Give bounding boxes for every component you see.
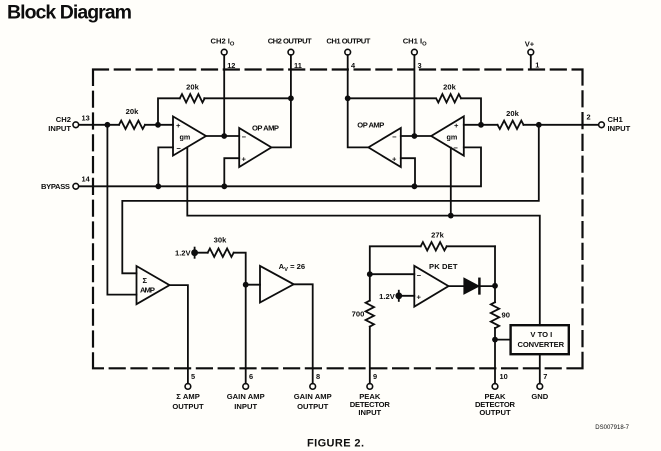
svg-text:90: 90 [502,311,510,320]
pin 8 terminal circle [310,384,316,390]
svg-text:INPUT: INPUT [48,124,71,133]
svg-text:Σ AMP: Σ AMP [176,392,200,401]
wire CH1 feedback riser [348,98,481,125]
wire gm1 control drop [450,148,452,216]
svg-text:13: 13 [82,113,90,122]
svg-text:OP AMP: OP AMP [357,120,384,129]
wire node to V-to-I box [495,339,511,341]
svg-text:1.2V: 1.2V [175,249,192,258]
svg-text:−: − [454,143,459,152]
svg-text:+: + [454,121,459,130]
wire pin 3 stub [413,55,415,136]
node junction dots [105,122,111,128]
svg-text:5: 5 [191,372,195,381]
svg-text:10: 10 [500,372,508,381]
svg-text:−: − [177,144,182,153]
svg-text:GND: GND [531,392,548,401]
svg-text:2: 2 [587,113,591,122]
wire V+ stub to outline [530,55,532,69]
svg-text:20k: 20k [506,109,519,118]
svg-text:gm: gm [447,132,458,141]
svg-text:27k: 27k [431,231,444,240]
resistor R-fb2 20k [180,94,205,102]
svg-text:OUTPUT: OUTPUT [172,402,204,411]
diode D1 cathode bar [478,279,481,294]
svg-text:CH1 OUTPUT: CH1 OUTPUT [326,36,370,45]
svg-text:+: + [417,292,422,301]
svg-text:gm: gm [180,132,191,141]
pin 10 terminal circle [492,384,498,390]
svg-text:−: − [242,133,247,142]
pin 9 terminal circle [367,384,373,390]
resistor R30k [208,249,234,257]
svg-text:CH1: CH1 [608,115,624,124]
wire pin 12 stub [223,55,225,136]
svg-text:700: 700 [352,310,365,319]
node pk det 1.2V terminal dot [398,291,400,301]
resistor R-fb1 20k [436,94,461,102]
svg-text:PK DET: PK DET [429,262,458,271]
svg-text:CH2 IO: CH2 IO [211,36,235,47]
wire A2 output to pin 11 [271,55,291,147]
wire 1.2V to pk det plus [399,295,415,297]
wire gm2 minus to bypass [158,147,173,186]
svg-text:GAIN AMP: GAIN AMP [294,392,332,401]
svg-text:1: 1 [535,61,539,70]
wire gain amp input [246,284,260,286]
svg-text:AV = 26: AV = 26 [279,262,305,273]
wire pk det minus input [370,273,415,275]
wire CH2 input line [79,124,173,126]
pin 14 BYPASS terminal circle [73,183,79,189]
diode D1 [464,279,478,294]
wire bypass rail [79,147,481,186]
svg-text:OUTPUT: OUTPUT [479,408,511,417]
svg-text:12: 12 [227,61,235,70]
svg-text:3: 3 [418,61,422,70]
wire 90 to output node [494,286,496,340]
svg-text:−: − [417,271,422,280]
resistor R-in2 20k [119,121,145,129]
svg-text:BYPASS: BYPASS [41,182,70,191]
svg-text:CONVERTER: CONVERTER [518,340,565,349]
op-amp PKDET peak detector [414,266,448,307]
svg-text:FIGURE 2.: FIGURE 2. [307,438,364,450]
op-amp SUM sigma amp [137,266,170,304]
wire pin 9 riser to 27k [370,246,495,383]
V to I converter box [511,325,569,354]
pin 11 CH2 OUTPUT terminal circle [288,49,294,55]
wire gm1 output to node [401,135,431,137]
wire 27k right leg [494,246,496,285]
wire pk det output to diode [449,285,464,287]
svg-text:DS007918-7: DS007918-7 [595,425,629,431]
svg-text:AMP: AMP [140,286,155,295]
wire A1 output to pin 4 [348,55,369,147]
resistor R-in1 20k [498,121,524,129]
wire CH2 input to sum amp [107,125,136,295]
svg-text:20k: 20k [126,107,139,116]
pin 4 CH1 OUTPUT terminal circle [345,49,351,55]
svg-text:1.2V: 1.2V [379,292,396,301]
resistor R90 [491,302,499,328]
svg-text:7: 7 [543,372,547,381]
svg-text:OP AMP: OP AMP [252,123,279,132]
op-amp gm1 CH1 transconductance amp [431,116,464,155]
op-amp A2 CH2 op amp [239,128,271,167]
wire sum amp output to pin 5 [170,285,188,383]
pin 1 V+ terminal circle [528,49,534,55]
wire CH1 input line [464,124,599,126]
svg-text:20k: 20k [186,83,199,92]
svg-text:Block Diagram: Block Diagram [7,2,132,24]
svg-text:V TO I: V TO I [530,330,552,339]
resistor R27k [421,242,447,250]
svg-text:+: + [242,155,247,164]
wire gm2 control line to V-to-I rail [187,148,540,326]
IC package dashed outline [93,70,583,369]
svg-text:INPUT: INPUT [608,124,631,133]
op-amp A1 CH1 op amp [368,128,400,167]
node 1.2V terminal dot [194,248,196,258]
wire gain amp output to pin 8 [294,284,313,383]
pin 13 CH2 INPUT terminal circle [73,122,79,128]
svg-text:GAIN AMP: GAIN AMP [227,392,265,401]
svg-text:CH2: CH2 [56,115,71,124]
svg-text:OUTPUT: OUTPUT [297,402,329,411]
svg-text:Σ: Σ [143,276,148,285]
wire A2 plus input [224,158,239,186]
svg-text:V+: V+ [525,39,535,48]
wire CH2 feedback riser [158,98,291,125]
svg-text:CH1 IO: CH1 IO [403,36,427,47]
wire pin 10 drop [494,340,496,384]
svg-text:−: − [392,133,397,142]
svg-text:6: 6 [249,372,253,381]
wire gm2 output to node [206,135,239,137]
wire pin 6 drop [245,285,247,384]
svg-text:INPUT: INPUT [358,408,381,417]
pin 5 terminal circle [185,384,191,390]
svg-text:INPUT: INPUT [234,402,257,411]
svg-text:8: 8 [316,372,320,381]
resistor R700 [366,301,374,327]
pin 7 GND terminal circle [537,384,543,390]
pin 12 CH2 I0 terminal circle [221,49,227,55]
wire CH1 input to sum amp [122,125,539,273]
wire diode to node [479,285,495,287]
wire 1.2V to 30k [195,253,246,285]
svg-text:+: + [176,121,181,130]
svg-text:+: + [392,154,397,163]
svg-text:14: 14 [82,174,91,183]
op-amp GAIN Av=26 amp [260,266,294,303]
pin 3 CH1 I0 terminal circle [412,49,418,55]
pin 6 terminal circle [243,384,249,390]
wire A1 plus input [401,158,415,186]
svg-text:CH2 OUTPUT: CH2 OUTPUT [268,36,312,45]
pin 2 CH1 INPUT terminal circle [599,122,605,128]
svg-text:9: 9 [373,372,377,381]
svg-text:20k: 20k [443,83,456,92]
svg-text:30k: 30k [214,236,227,245]
op-amp gm2 CH2 transconductance amp [173,116,206,155]
svg-text:11: 11 [294,61,302,70]
wire GND drop from box [539,354,541,383]
